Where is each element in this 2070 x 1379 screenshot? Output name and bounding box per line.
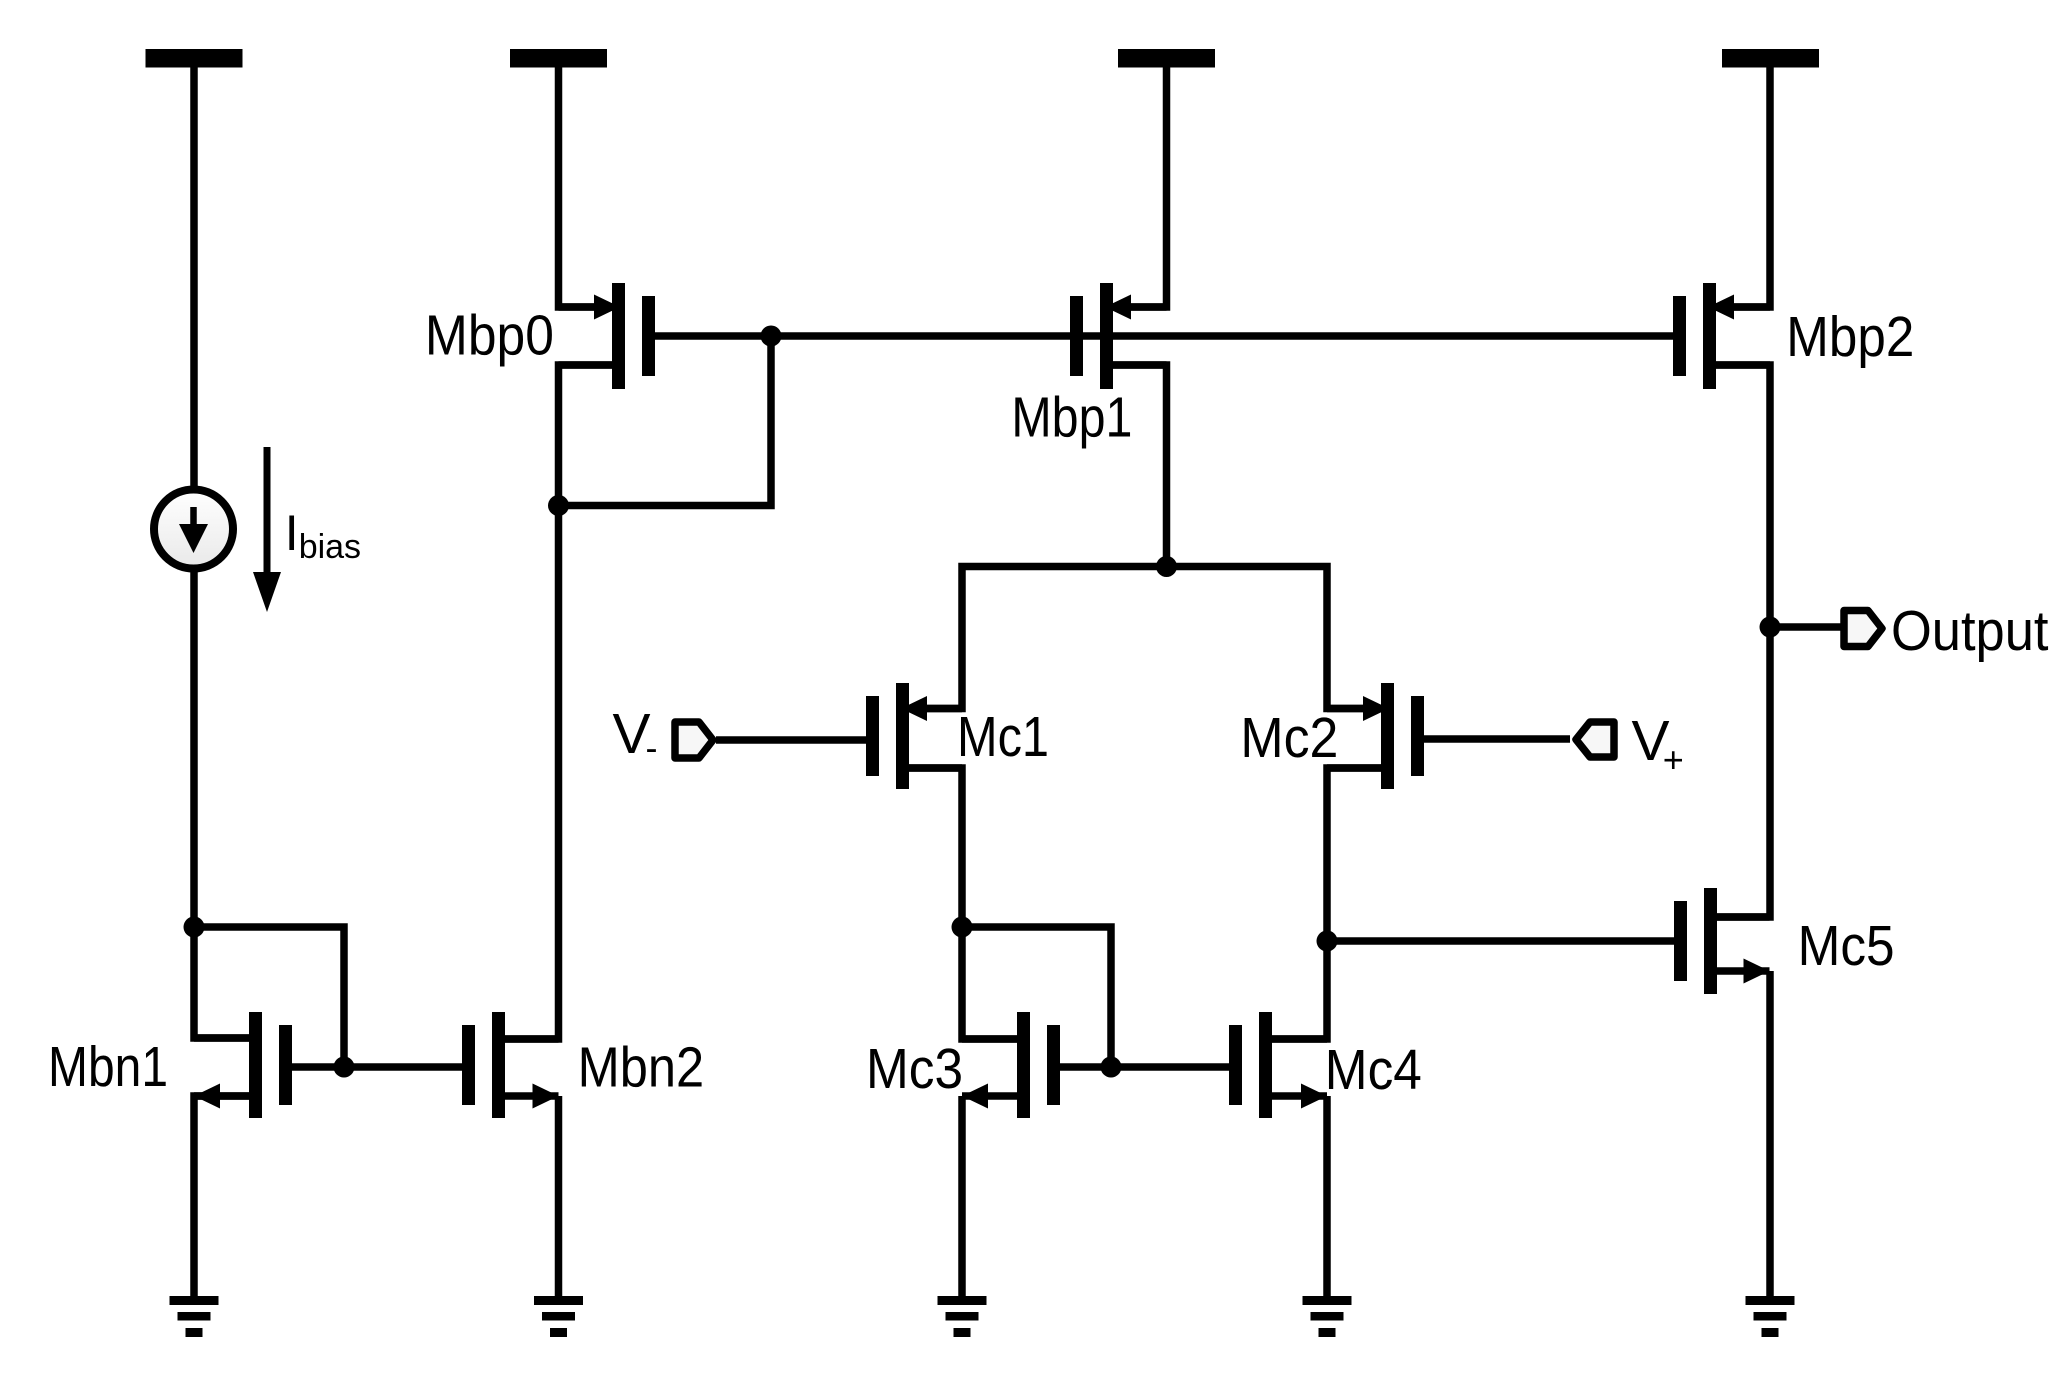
label V+ [1632, 709, 1684, 780]
svg-text:Mc1: Mc1 [957, 705, 1049, 769]
ground symbol under Mbn1 [170, 1296, 219, 1337]
node: junction on Mbp0 drain rail [548, 495, 569, 516]
wire: VDD3 down to Mbp1 source [1113, 67, 1167, 307]
wire: current source to Mbn1 drain [194, 569, 249, 1038]
wire: V- port to Mc1 gate [716, 736, 866, 744]
wire: Mc3 diode connection tap [962, 927, 1111, 1067]
svg-text:-: - [646, 727, 658, 768]
wire: Mc2 gate to V+ port [1424, 735, 1570, 743]
port V- (input) [675, 722, 713, 758]
svg-text:Mbn1: Mbn1 [48, 1035, 168, 1099]
label V- [613, 702, 658, 768]
wire: Mbn2 source down to ground [555, 1096, 563, 1300]
VDD rail bar 4 (right) [1722, 49, 1819, 68]
node: junction on left rail (Mbn1 gate tie) [184, 917, 205, 938]
VDD rail bar 2 [510, 49, 607, 68]
svg-text:+: + [1663, 739, 1684, 780]
wire: tail to Mc1 source [909, 567, 1167, 709]
current source I1 circle with down arrow [154, 490, 233, 569]
wire: VDD2 down to Mbp0 source [559, 67, 613, 307]
wire: Mbp2 drain down to Mc5 drain [1716, 365, 1770, 917]
svg-text:Mbn2: Mbn2 [578, 1036, 705, 1100]
transistor Mc1 (PMOS input -) [866, 683, 962, 789]
wire: Mbp0 drain rail down to Mbn2 drain [505, 365, 612, 1039]
transistor Mbp2 (PMOS output) [1673, 283, 1770, 389]
node: junction Mc5 gate tap [1317, 931, 1338, 952]
wire: output tap [1770, 623, 1841, 631]
ground symbol under Mc4 [1303, 1296, 1352, 1337]
VDD rail bar 1 (left) [146, 49, 243, 68]
transistor Mc5 (NMOS output) [1674, 888, 1770, 994]
svg-text:Mc3: Mc3 [866, 1037, 963, 1101]
transistor Mc4 (NMOS mirror) [1229, 1012, 1327, 1118]
Ibias current direction arrow [253, 447, 281, 612]
svg-text:bias: bias [299, 528, 361, 566]
svg-text:Mc5: Mc5 [1798, 914, 1895, 978]
svg-text:Mbp2: Mbp2 [1786, 305, 1914, 369]
node: junction on PMOS mirror gate wire [761, 326, 782, 347]
wire: Mc4 source down to ground [1323, 1096, 1331, 1300]
svg-text:Mc2: Mc2 [1240, 706, 1338, 770]
VDD rail bar 3 [1118, 49, 1215, 68]
port V+ (input) [1576, 722, 1614, 757]
label Ibias [285, 505, 361, 566]
ground symbol under Mbn2 [534, 1296, 583, 1337]
node: junction on Mc1-Mc3 rail [952, 917, 973, 938]
wire: Mc5 source down to ground [1766, 971, 1774, 1300]
node: junction on Mbn1-Mbn2 gate wire [334, 1057, 355, 1078]
transistor Mbn2 (NMOS) [462, 1012, 559, 1118]
port Output [1844, 611, 1882, 647]
svg-text:Mc4: Mc4 [1325, 1038, 1422, 1102]
ground symbol under Mc3 [938, 1296, 987, 1337]
svg-text:I: I [285, 505, 299, 561]
svg-text:Mbp0: Mbp0 [425, 304, 554, 368]
transistor Mc3 (NMOS mirror, diode connected) [962, 1012, 1060, 1118]
wire: tail to Mc2 source [1167, 567, 1382, 709]
ground symbol under Mc5 [1746, 1296, 1795, 1337]
transistor Mbp0 (PMOS, diode connected) [559, 283, 656, 389]
wire: Mc1 drain down to Mc3 drain [909, 768, 1017, 1039]
wire: Mbp0 gate-drain tie [559, 336, 772, 506]
node: tail junction [1156, 556, 1177, 577]
wire: Mbn1 source down to ground [194, 1096, 249, 1300]
svg-text:Mbp1: Mbp1 [1011, 386, 1132, 450]
transistor Mbp1 (PMOS tail source) [1070, 283, 1167, 389]
svg-text:Output: Output [1891, 599, 2049, 663]
wire: Mbn1 diode connection tap [194, 927, 344, 1067]
wire: PMOS current mirror gate bus (Mbp0-Mbp1-Mbp2) [655, 332, 1673, 340]
wire: Mc3-Mc4 gate wire [1060, 1063, 1229, 1071]
wire: VDD1 down to current source [190, 67, 198, 489]
transistor Mc2 (PMOS input +) [1327, 683, 1424, 789]
node: junction on Mc3-Mc4 gate wire [1101, 1057, 1122, 1078]
wire: Mc5 gate wire [1327, 937, 1674, 945]
wire: Mc2 drain down to Mc4 drain [1272, 768, 1381, 1039]
node: output junction [1760, 617, 1781, 638]
transistor Mbn1 (NMOS, diode connected) [194, 1012, 292, 1118]
wire: Mc3 source down to ground [958, 1096, 966, 1300]
wire: Mbn1-Mbn2 gate wire [292, 1063, 462, 1071]
wire: Mbp1 drain down to diff pair tail [1113, 365, 1167, 567]
wire: VDD4 down to Mbp2 source [1716, 67, 1770, 307]
